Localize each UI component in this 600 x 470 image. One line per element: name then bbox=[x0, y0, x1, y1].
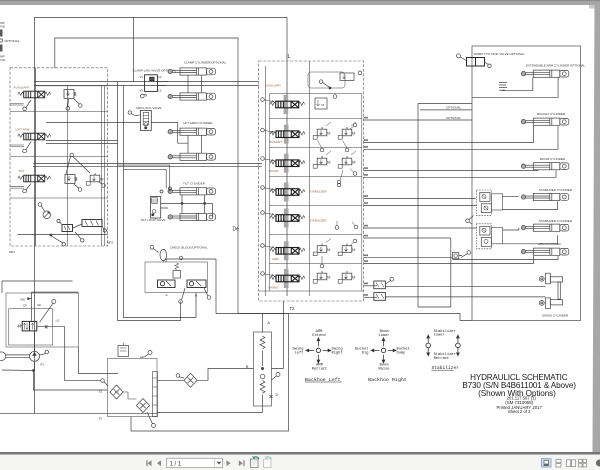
page corner shadow top-right bbox=[589, 5, 595, 9]
clamp cylinder connector wires bbox=[157, 75, 201, 93]
return filter diamond bbox=[136, 399, 149, 413]
svg-text:STABILIZER CYLINDER: STABILIZER CYLINDER bbox=[539, 188, 573, 192]
swing shuttle valve 1 bbox=[374, 281, 386, 289]
wire: supply pair to right bank row 1 bbox=[34, 82, 258, 86]
junction dot pump suction bbox=[33, 370, 35, 372]
check valve A bbox=[158, 280, 176, 288]
priority valve box bbox=[9, 309, 53, 345]
MP leader b bbox=[75, 232, 81, 239]
arm holding leader bbox=[461, 254, 467, 258]
boom work reliefs M pair bbox=[313, 156, 330, 168]
right valve bank boundary box bbox=[259, 61, 364, 301]
check valve B bbox=[187, 280, 206, 288]
tilt lock valve body bbox=[151, 197, 161, 219]
svg-text:Lower: Lower bbox=[378, 334, 389, 338]
svg-text:C1: C1 bbox=[158, 75, 162, 79]
bucket relief leaders bbox=[318, 122, 357, 148]
wire filter to crossover box bbox=[157, 369, 254, 381]
arm cylinder bbox=[521, 248, 569, 255]
bucket work reliefs M pair bbox=[313, 127, 330, 139]
tilt row relief valve W bbox=[65, 175, 77, 184]
pump enclosure box bbox=[6, 293, 79, 347]
case drain filter diamond bbox=[184, 373, 197, 387]
bank bottom inner line bbox=[17, 234, 107, 236]
svg-text:Backhoe Right: Backhoe Right bbox=[368, 377, 407, 383]
crossover junction dot bbox=[261, 367, 263, 369]
check relief circle bbox=[179, 256, 183, 260]
MP port circle a bbox=[62, 243, 65, 246]
wire: tank return bottom line bbox=[0, 412, 157, 414]
svg-text:S1: S1 bbox=[99, 390, 103, 394]
bank inner row frame bbox=[269, 94, 361, 292]
wire: mid horizontal pair to right bank bbox=[33, 164, 262, 167]
export page icon 1 bbox=[251, 456, 259, 467]
svg-text:D: D bbox=[276, 393, 279, 397]
legend cross backhoe right bbox=[371, 338, 396, 363]
svg-text:B: B bbox=[195, 294, 197, 298]
crossover pilot leader bbox=[272, 376, 277, 380]
aux port circle bbox=[23, 107, 27, 111]
nav last-page button bbox=[239, 460, 245, 466]
tilt port circle bbox=[23, 189, 27, 193]
viewer right gray strip bbox=[593, 5, 600, 452]
svg-text:EF: EF bbox=[38, 303, 42, 307]
shuttle wires bbox=[60, 222, 104, 229]
svg-text:TILT LOCK VALVE: TILT LOCK VALVE bbox=[141, 218, 166, 222]
tilt feed corner wires bbox=[118, 165, 170, 191]
arm cyl wires bbox=[453, 256, 559, 260]
check block port circles bbox=[179, 300, 183, 304]
tilt lock wire bbox=[155, 218, 157, 220]
wire: ext arm cylinder feeds bbox=[472, 77, 558, 97]
shuttle box 1 arrows bbox=[64, 226, 70, 230]
leader wires check ports bbox=[182, 288, 209, 300]
boom cylinder bbox=[521, 163, 569, 170]
svg-text:T5: T5 bbox=[99, 417, 103, 421]
priority valve arrows bbox=[23, 323, 33, 330]
check block box bbox=[145, 262, 208, 293]
aux row relief valve bbox=[64, 90, 76, 99]
leader wires aux relief bbox=[68, 99, 80, 107]
leader wire compensator bbox=[41, 206, 44, 211]
shuttle out wires bbox=[385, 286, 545, 297]
X port mark crossover bbox=[270, 395, 273, 398]
check block relief valve bbox=[173, 271, 181, 279]
left bank inner top edge bbox=[36, 85, 108, 87]
bank internal gallery lines bbox=[266, 61, 310, 296]
legend labels backhoe right bbox=[378, 330, 389, 372]
svg-text:Sheet 2 of 2: Sheet 2 of 2 bbox=[508, 409, 531, 414]
svg-text:MP1: MP1 bbox=[9, 250, 16, 254]
bus wires bank to cylinders bbox=[364, 119, 473, 121]
dtt drain circle bbox=[488, 64, 492, 68]
lift arm cylinder 1 bbox=[168, 128, 216, 135]
wire: long return line to right circuit bbox=[216, 259, 472, 320]
crossover wires inside bbox=[262, 351, 264, 407]
bucket cylinder bbox=[521, 118, 569, 125]
wire pump case drain bbox=[79, 347, 119, 374]
stab1 aux circle bbox=[337, 183, 341, 187]
aux port leader bbox=[264, 100, 274, 102]
svg-text:EXTENDABLE ARM CYLINDER OPTION: EXTENDABLE ARM CYLINDER OPTIONAL bbox=[526, 64, 586, 68]
check relief spring bbox=[175, 263, 179, 270]
legend labels backhoe left bbox=[312, 330, 328, 372]
boom relief leaders bbox=[326, 151, 356, 181]
dtt valve circle bbox=[457, 54, 461, 58]
bucket relief circles bbox=[353, 123, 357, 127]
view mode icon single page (selected) bbox=[542, 459, 552, 467]
swing cylinder lower bbox=[539, 298, 562, 309]
tank boundary box bbox=[108, 359, 158, 417]
stab lock 1 drain circle bbox=[466, 219, 470, 223]
clamp cylinder 2 bbox=[168, 93, 216, 100]
clamp link valve bbox=[145, 75, 158, 92]
page bottom shadow line bbox=[0, 452, 600, 455]
aux relief port circle bbox=[66, 107, 70, 111]
arm relief leaders bbox=[322, 239, 354, 265]
arm work reliefs M pair bbox=[313, 244, 330, 256]
wire crossover top bbox=[262, 314, 264, 333]
wire: secondary bus / tank return loop bbox=[55, 38, 289, 431]
field dropdown divider bbox=[214, 458, 216, 467]
swing crossover relief box bbox=[254, 332, 272, 406]
lift port circle bbox=[23, 149, 27, 153]
priority pilot circle bbox=[52, 300, 56, 304]
stabilizer lock valve cluster 1 bbox=[476, 190, 502, 215]
svg-text:STABILIZER: STABILIZER bbox=[309, 219, 327, 223]
stabilizer cylinder 1 bbox=[521, 193, 569, 200]
arm lock port leader bbox=[131, 114, 140, 116]
lift port leader wire bbox=[26, 142, 31, 150]
wire: T2 return vertical bbox=[272, 301, 284, 369]
nav next button bbox=[227, 460, 231, 466]
swing shuttle valve 2 bbox=[374, 293, 386, 301]
lift cylinder connector wires bbox=[188, 135, 202, 153]
lift spool valve V2 bbox=[18, 133, 51, 140]
inlet relief circle bbox=[358, 71, 362, 75]
accumulator leader bbox=[153, 249, 158, 253]
priority valve spring bbox=[17, 325, 22, 328]
boom relief circles bbox=[353, 172, 357, 176]
MP1 leader bbox=[52, 236, 63, 243]
svg-text:TILT CYLINDER: TILT CYLINDER bbox=[183, 181, 206, 185]
left bank row stub pairs bbox=[10, 104, 24, 189]
wire: load sense line 2 bbox=[118, 82, 181, 321]
nav first-page button bbox=[146, 460, 151, 466]
svg-text:LS: LS bbox=[56, 319, 60, 323]
wire pump suction bbox=[2, 361, 108, 390]
direct to tank valve bbox=[467, 58, 485, 67]
aux spool valve V1 bbox=[18, 91, 51, 98]
svg-text:Dig: Dig bbox=[362, 351, 369, 356]
stabilizer legend column left bbox=[426, 335, 431, 356]
svg-text:Right: Right bbox=[332, 351, 343, 356]
accumulator port circle bbox=[150, 246, 154, 250]
view mode icon two-page bbox=[567, 460, 576, 467]
svg-text:DIRECT TO TANK VALVE OPTIONAL: DIRECT TO TANK VALVE OPTIONAL bbox=[474, 52, 525, 56]
leader to filter bbox=[179, 377, 184, 378]
aux coupler text block bbox=[499, 82, 507, 91]
inlet port circle bbox=[319, 80, 323, 84]
svg-text:Left: Left bbox=[295, 351, 304, 356]
stab2 circles bbox=[335, 226, 339, 230]
case drain filter circle bbox=[176, 374, 180, 378]
MS junction dot bbox=[27, 298, 29, 300]
priority pilot leader bbox=[40, 303, 53, 322]
filter drain wire bbox=[147, 412, 153, 424]
nav prev button bbox=[157, 460, 161, 466]
left margin valve symbol (cropped) bbox=[0, 30, 3, 37]
svg-text:Retract: Retract bbox=[434, 357, 450, 361]
legend cross backhoe left bbox=[306, 338, 331, 363]
clamp cylinder 1 bbox=[168, 68, 216, 75]
swing port circle bbox=[261, 272, 265, 276]
clamp valve port leader bbox=[144, 94, 146, 96]
svg-text:CF: CF bbox=[23, 303, 27, 307]
stab lock 1 leader bbox=[469, 216, 474, 225]
X port mark bbox=[45, 325, 48, 328]
svg-text:BOOM: BOOM bbox=[269, 169, 279, 173]
svg-text:MP2: MP2 bbox=[107, 241, 114, 245]
stab1 port leader bbox=[264, 188, 274, 190]
arm lock valve body bbox=[140, 110, 151, 130]
wire tank to crossover bottom bbox=[157, 406, 263, 413]
stabilizer legend column right bbox=[456, 335, 461, 356]
wire: main pressure bus from pump up over top to right bank bbox=[34, 18, 287, 414]
stabilizer lock valve cluster 2 bbox=[476, 224, 502, 249]
swing cylinder connector link bbox=[558, 282, 560, 299]
boom spool valve bbox=[270, 154, 305, 173]
stab2 wires bbox=[503, 228, 558, 244]
tilt cylinder connector wires bbox=[161, 195, 213, 217]
bank inlet relief valve bbox=[340, 73, 354, 81]
svg-text:STABILIZER CYLINDER: STABILIZER CYLINDER bbox=[539, 219, 573, 223]
load sense shuttle box 1 bbox=[62, 225, 73, 232]
bucket port circle bbox=[261, 128, 265, 132]
shuttle box 2 arrows bbox=[85, 221, 99, 226]
svg-text:AUXILIARY: AUXILIARY bbox=[14, 86, 30, 90]
svg-text:Lower: Lower bbox=[434, 334, 445, 338]
svg-text:1 / 1: 1 / 1 bbox=[170, 461, 182, 467]
svg-text:CHECK BLOCK/OPTIONAL: CHECK BLOCK/OPTIONAL bbox=[170, 246, 208, 250]
svg-text:BOOM CYLINDER: BOOM CYLINDER bbox=[540, 157, 566, 161]
shuttle pilot circle bbox=[390, 277, 394, 281]
compensator arrow bbox=[44, 212, 50, 218]
svg-text:OPTIONAL: OPTIONAL bbox=[446, 116, 462, 120]
tilt connector junction dots bbox=[181, 202, 183, 204]
swing cylinder upper bbox=[539, 273, 562, 284]
filter drain circle bbox=[152, 424, 156, 428]
clamp valve port circle bbox=[140, 94, 144, 98]
tilt cylinder 1 bbox=[168, 188, 216, 195]
bank inner bottom line bbox=[259, 290, 364, 292]
port tick labels on bank edge bbox=[364, 117, 368, 119]
svg-text:DRIVE: DRIVE bbox=[0, 58, 5, 62]
svg-text:L: L bbox=[288, 54, 291, 60]
lift arm cylinder 2 bbox=[168, 153, 216, 160]
leader wire mid circle bbox=[66, 156, 90, 174]
svg-text:Retract: Retract bbox=[312, 368, 328, 372]
stab1 port circle bbox=[261, 186, 265, 190]
wire: clamp valve feed vertical bbox=[133, 18, 135, 82]
arm lock port circle bbox=[128, 111, 131, 114]
arm port leader bbox=[264, 246, 274, 248]
aux relief circle 2 bbox=[79, 104, 83, 108]
svg-text:Raise: Raise bbox=[378, 367, 389, 372]
dtt leader bbox=[460, 57, 467, 61]
svg-text:CLAMP CYLINDER/OPTIONAL: CLAMP CYLINDER/OPTIONAL bbox=[184, 61, 227, 65]
svg-text:C2: C2 bbox=[158, 88, 162, 92]
stab2 port circle bbox=[261, 211, 265, 215]
left margin valve symbol 2 (cropped) bbox=[0, 45, 3, 52]
svg-text:ARM CYLINDER: ARM CYLINDER bbox=[538, 242, 562, 246]
arm relief circles bbox=[320, 264, 324, 268]
stab2 port leader bbox=[264, 213, 274, 215]
svg-text:ARM LOCK VALVE: ARM LOCK VALVE bbox=[136, 106, 162, 110]
leader wires tilt relief bbox=[74, 182, 102, 188]
pump pilot circle bbox=[45, 350, 49, 354]
LS wire bbox=[37, 327, 101, 381]
stabilizer cylinder 2 bbox=[521, 224, 569, 231]
bypass leader curve bbox=[140, 354, 149, 357]
field dropdown arrow bbox=[217, 462, 222, 465]
tank right edge cooler column bbox=[153, 372, 158, 417]
dtt drain leader bbox=[485, 62, 489, 65]
S1 leader bbox=[104, 382, 108, 386]
left valve bank boundary box bbox=[10, 68, 108, 246]
svg-text:BUCKET CYLINDER: BUCKET CYLINDER bbox=[537, 112, 566, 116]
bypass valve box bbox=[118, 346, 129, 357]
partial icon at right edge bbox=[596, 460, 600, 467]
arm port circle bbox=[261, 244, 265, 248]
inlet rounded enclosure bbox=[308, 72, 345, 88]
swing work reliefs M pair bbox=[313, 271, 330, 283]
svg-text:Dump: Dump bbox=[397, 352, 406, 356]
aux port leader wire bbox=[26, 100, 31, 108]
wire: optional line bbox=[420, 109, 472, 111]
MP1 port dot bbox=[50, 234, 52, 236]
wire: left edge to priority box bbox=[2, 281, 73, 293]
svg-text:A: A bbox=[166, 293, 168, 297]
boom cyl port wire bbox=[537, 169, 539, 172]
wire: lift row pair bbox=[46, 141, 118, 144]
wire strainer to pump line bbox=[123, 392, 136, 399]
arm spool valve bbox=[270, 241, 305, 260]
svg-text:Extend: Extend bbox=[312, 333, 325, 338]
check block outer wire bbox=[166, 259, 216, 262]
bucket port leader bbox=[264, 131, 274, 133]
svg-text:BUCKET: BUCKET bbox=[270, 140, 283, 144]
stab2 leaders bbox=[337, 221, 355, 226]
svg-text:OPTIONAL: OPTIONAL bbox=[446, 105, 462, 109]
wire MS stub bbox=[28, 292, 78, 321]
left bank row separators bbox=[10, 112, 108, 199]
svg-text:TILT: TILT bbox=[19, 169, 25, 173]
arm lock wires bbox=[46, 123, 188, 144]
left bank inner gallery verticals bbox=[67, 86, 104, 246]
viewer top gray strip bbox=[0, 0, 600, 5]
shuttle leader bbox=[385, 281, 390, 285]
stab1 spool valve bbox=[270, 183, 305, 202]
tilt spool valve V3 bbox=[18, 175, 51, 182]
crossover zigzag 1 bbox=[260, 336, 265, 349]
crossover zigzag 2 bbox=[260, 381, 265, 394]
tilt relief circles bbox=[78, 188, 82, 192]
view mode icon two-page continuous bbox=[579, 459, 587, 467]
wire: load sense lines down to check block bbox=[124, 86, 197, 318]
title block bbox=[462, 373, 576, 414]
arm holding circle bbox=[467, 251, 471, 255]
arm holding valve bbox=[453, 253, 459, 259]
crossover pilot circle bbox=[276, 373, 280, 377]
tilt port leader wire bbox=[26, 184, 31, 190]
svg-text:T2: T2 bbox=[290, 306, 296, 311]
boom port leader bbox=[264, 159, 274, 161]
pump connector double bar bbox=[6, 355, 30, 358]
pressure compensator circle bbox=[43, 211, 51, 219]
priority valve spool bbox=[22, 321, 37, 331]
bank row separators bbox=[269, 119, 361, 264]
extendable arm cylinder bbox=[521, 70, 569, 77]
svg-text:DRIVE: DRIVE bbox=[0, 25, 5, 29]
wire: supply vertical pair in left bank bbox=[35, 68, 37, 246]
svg-text:P1: P1 bbox=[40, 362, 44, 366]
accumulator wire bbox=[162, 261, 164, 262]
aux relief circle bbox=[333, 95, 337, 99]
view mode icon continuous bbox=[556, 459, 561, 467]
svg-text:ARM: ARM bbox=[272, 257, 279, 261]
S1 pilot circle bbox=[101, 379, 105, 383]
tilt cylinder 2 bbox=[168, 213, 216, 220]
swing spool valve bbox=[270, 269, 305, 288]
inlet junction dot bbox=[329, 87, 331, 89]
crossover circle bbox=[260, 374, 265, 379]
svg-text:SWING CYLINDER: SWING CYLINDER bbox=[542, 313, 569, 317]
svg-text:V1: V1 bbox=[140, 75, 144, 79]
svg-text:SWING: SWING bbox=[268, 286, 279, 290]
page number field bbox=[167, 458, 223, 467]
mid circle between rows bbox=[70, 153, 74, 157]
stab1 wires bbox=[503, 196, 558, 209]
shuttle port circles bbox=[57, 219, 60, 222]
pump pilot leader bbox=[40, 353, 46, 355]
stabilizer legend labels bbox=[434, 329, 456, 361]
svg-text:V2: V2 bbox=[140, 88, 144, 92]
swing port leader bbox=[264, 274, 274, 276]
right circuit outer box bbox=[472, 46, 581, 320]
tilt cylinder extra port circles bbox=[160, 190, 163, 193]
tilt row relief valve M bbox=[86, 173, 103, 185]
pump P1 arrow bbox=[32, 352, 37, 356]
compensator pilot circle bbox=[38, 203, 42, 207]
svg-text:AUXILIARY: AUXILIARY bbox=[265, 84, 281, 88]
MP port circle b bbox=[81, 239, 84, 242]
aux work relief M bbox=[315, 98, 327, 109]
bypass circle bbox=[148, 351, 152, 355]
svg-text:LIFT ARM: LIFT ARM bbox=[16, 128, 30, 132]
boom port circle bbox=[261, 157, 265, 161]
pump P1 circle bbox=[30, 351, 40, 361]
long vertical bus right bbox=[418, 104, 451, 308]
aux spool valve (right) bbox=[270, 95, 305, 114]
load sense shuttle box 2 bbox=[82, 220, 102, 227]
left margin optional circle bbox=[0, 39, 3, 42]
aux port circle right bbox=[261, 98, 265, 102]
bucket spool valve bbox=[270, 125, 305, 144]
suction strainer S1 diamond bbox=[110, 385, 123, 399]
svg-text:LIFT ARM CYLINDER: LIFT ARM CYLINDER bbox=[183, 121, 213, 125]
toolbar bbox=[0, 452, 600, 470]
